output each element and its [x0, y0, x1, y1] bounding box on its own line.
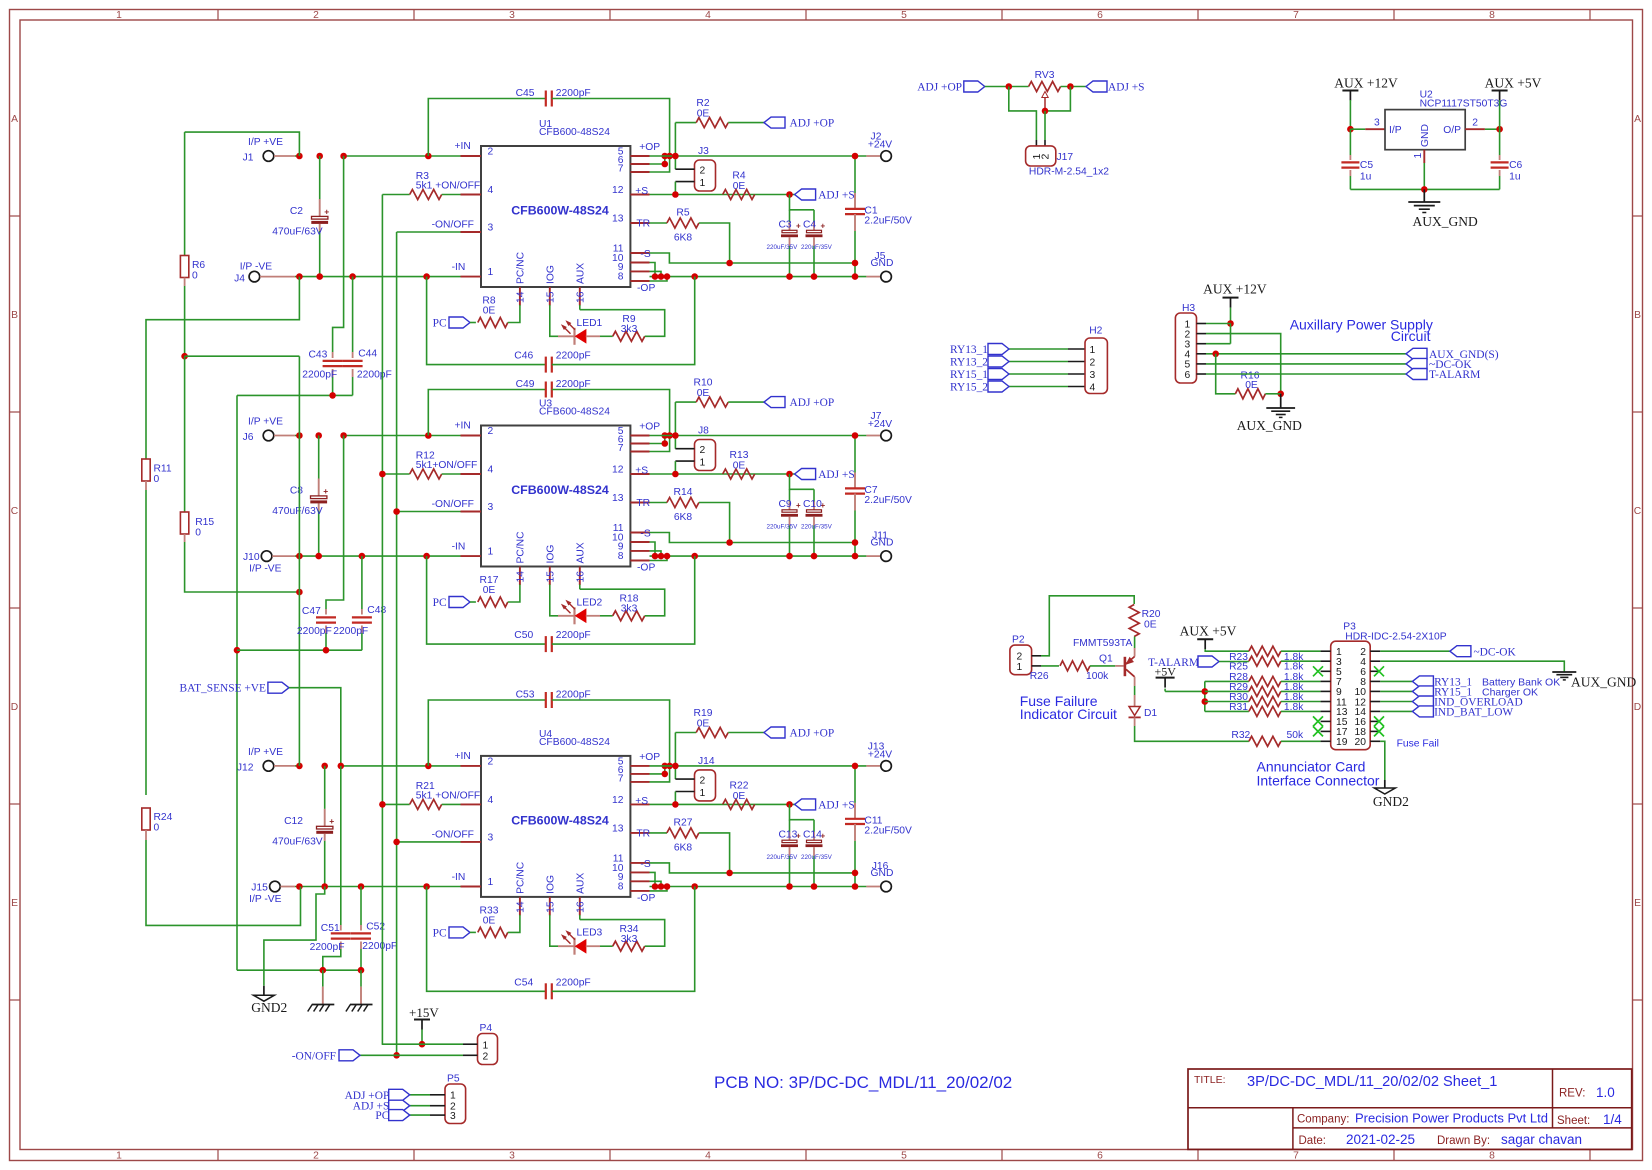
svg-text:I/P -VE: I/P -VE [249, 564, 282, 575]
svg-text:7: 7 [1293, 1151, 1299, 1162]
svg-text:E: E [1634, 898, 1641, 909]
svg-text:AUX_GND: AUX_GND [1237, 418, 1302, 433]
svg-text:I/P +VE: I/P +VE [248, 137, 283, 148]
svg-text:J1: J1 [243, 153, 254, 164]
svg-text:+24V: +24V [868, 419, 892, 430]
svg-text:4: 4 [488, 795, 494, 806]
svg-text:D: D [11, 702, 18, 713]
svg-text:GND2: GND2 [251, 1000, 287, 1015]
svg-text:AUX +5V: AUX +5V [1485, 76, 1542, 91]
svg-text:0E: 0E [1144, 620, 1157, 631]
svg-text:2.2uF/50V: 2.2uF/50V [864, 495, 912, 506]
svg-text:sagar chavan: sagar chavan [1501, 1132, 1582, 1147]
svg-text:CFB600-48S24: CFB600-48S24 [539, 407, 610, 418]
svg-text:ADJ +OP: ADJ +OP [790, 118, 835, 130]
svg-text:R27: R27 [674, 817, 693, 828]
svg-text:Fuse Fail: Fuse Fail [1397, 739, 1439, 750]
svg-text:ADJ +S: ADJ +S [818, 469, 855, 481]
svg-text:5k1 +ON/OFF: 5k1 +ON/OFF [416, 181, 480, 192]
svg-text:I/P: I/P [1389, 125, 1402, 136]
svg-text:Circuit: Circuit [1391, 328, 1431, 344]
svg-text:LED1: LED1 [577, 318, 603, 329]
svg-text:3k3: 3k3 [621, 934, 638, 945]
svg-text:-S: -S [640, 859, 650, 870]
svg-text:C6: C6 [1509, 160, 1522, 171]
svg-text:0E: 0E [697, 388, 710, 399]
svg-text:-ON/OFF: -ON/OFF [432, 829, 474, 840]
svg-text:Indicator Circuit: Indicator Circuit [1020, 706, 1117, 722]
svg-text:3: 3 [1090, 370, 1096, 381]
svg-text:220uF/35V: 220uF/35V [801, 524, 833, 531]
svg-text:3k3: 3k3 [621, 324, 638, 335]
svg-text:E: E [11, 898, 18, 909]
svg-text:GND: GND [871, 538, 894, 549]
svg-text:1: 1 [1090, 345, 1096, 356]
svg-text:O/P: O/P [1443, 125, 1461, 136]
svg-text:1: 1 [488, 267, 494, 278]
svg-text:4: 4 [705, 10, 711, 21]
svg-text:0E: 0E [483, 915, 496, 926]
svg-text:NCP1117ST50T3G: NCP1117ST50T3G [1420, 99, 1508, 110]
svg-text:CFB600-48S24: CFB600-48S24 [539, 737, 610, 748]
svg-text:C4: C4 [803, 220, 816, 231]
svg-text:CFB600W-48S24: CFB600W-48S24 [511, 483, 609, 497]
svg-text:C54: C54 [514, 977, 533, 988]
svg-text:AUX: AUX [575, 542, 586, 563]
svg-text:Sheet:: Sheet: [1557, 1115, 1590, 1127]
svg-text:3: 3 [509, 1151, 515, 1162]
svg-text:2200pF: 2200pF [556, 977, 591, 988]
svg-text:PC: PC [433, 597, 447, 609]
svg-text:H2: H2 [1089, 326, 1102, 337]
svg-text:16: 16 [575, 571, 586, 583]
svg-text:8: 8 [1489, 1151, 1495, 1162]
svg-text:I/P +VE: I/P +VE [248, 747, 283, 758]
svg-text:+OP: +OP [639, 142, 660, 153]
svg-text:I/P -VE: I/P -VE [240, 262, 273, 273]
svg-text:1: 1 [116, 10, 122, 21]
svg-text:1: 1 [483, 1040, 489, 1051]
svg-text:C10: C10 [803, 499, 822, 510]
svg-text:C44: C44 [358, 349, 377, 360]
svg-text:IOG: IOG [545, 545, 556, 564]
svg-text:4: 4 [705, 1151, 711, 1162]
svg-text:C13: C13 [779, 829, 798, 840]
svg-text:1: 1 [700, 788, 706, 799]
svg-text:Company:: Company: [1297, 1114, 1349, 1126]
svg-text:C: C [11, 506, 19, 517]
svg-text:R15: R15 [195, 517, 214, 528]
svg-text:3k3: 3k3 [621, 604, 638, 615]
svg-text:+: + [323, 486, 328, 496]
svg-text:1: 1 [450, 1091, 456, 1102]
svg-text:0: 0 [192, 271, 198, 282]
svg-text:PC/NC: PC/NC [515, 251, 526, 284]
svg-text:2: 2 [700, 166, 706, 177]
svg-text:2: 2 [313, 10, 319, 21]
svg-text:C12: C12 [284, 816, 303, 827]
svg-text:-ON/OFF: -ON/OFF [432, 220, 474, 231]
svg-text:Date:: Date: [1299, 1135, 1327, 1147]
svg-text:B: B [1634, 310, 1641, 321]
svg-text:2200pF: 2200pF [302, 369, 337, 380]
svg-text:H3: H3 [1182, 303, 1195, 314]
svg-text:GND: GND [1420, 124, 1431, 147]
svg-text:1: 1 [488, 877, 494, 888]
svg-text:LED3: LED3 [577, 928, 603, 939]
svg-text:C46: C46 [514, 351, 533, 362]
svg-text:16: 16 [575, 291, 586, 303]
svg-text:1: 1 [1413, 153, 1424, 159]
svg-text:CFB600-48S24: CFB600-48S24 [539, 127, 610, 138]
svg-text:BAT_SENSE +VE: BAT_SENSE +VE [180, 683, 267, 695]
svg-text:1: 1 [700, 458, 706, 469]
svg-text:0: 0 [154, 823, 160, 834]
svg-text:+OP: +OP [639, 422, 660, 433]
svg-text:8: 8 [618, 272, 624, 283]
svg-text:PC: PC [433, 927, 447, 939]
svg-text:Interface Connector: Interface Connector [1257, 773, 1380, 789]
svg-text:2200pF: 2200pF [357, 369, 392, 380]
svg-text:19: 19 [1336, 737, 1348, 748]
svg-text:C9: C9 [779, 499, 792, 510]
svg-text:+OP: +OP [639, 752, 660, 763]
svg-text:14: 14 [515, 571, 526, 583]
svg-text:RV3: RV3 [1035, 70, 1055, 81]
svg-text:6: 6 [1097, 1151, 1103, 1162]
svg-text:20: 20 [1355, 737, 1367, 748]
svg-text:D: D [1634, 702, 1641, 713]
svg-text:3: 3 [488, 502, 494, 513]
svg-text:C43: C43 [309, 350, 328, 361]
svg-text:Q1: Q1 [1099, 654, 1113, 665]
svg-text:6K8: 6K8 [674, 233, 693, 244]
svg-text:3: 3 [509, 10, 515, 21]
svg-text:C53: C53 [516, 690, 535, 701]
svg-text:C5: C5 [1360, 160, 1373, 171]
svg-text:3P/DC-DC_MDL/11_20/02/02 Sheet: 3P/DC-DC_MDL/11_20/02/02 Sheet_1 [1247, 1074, 1497, 1090]
svg-text:2200pF: 2200pF [310, 942, 345, 953]
svg-text:1.8k: 1.8k [1284, 702, 1304, 713]
svg-text:IOG: IOG [545, 265, 556, 284]
svg-text:C: C [1634, 506, 1642, 517]
svg-text:6K8: 6K8 [674, 512, 693, 523]
svg-text:1: 1 [700, 178, 706, 189]
svg-text:-S: -S [640, 249, 650, 260]
svg-text:Precision Power Products Pvt L: Precision Power Products Pvt Ltd [1355, 1111, 1548, 1126]
svg-text:14: 14 [515, 901, 526, 913]
svg-text:2200pF: 2200pF [556, 88, 591, 99]
svg-text:PCB NO: 3P/DC-DC_MDL/11_20/02/: PCB NO: 3P/DC-DC_MDL/11_20/02/02 [714, 1073, 1012, 1092]
svg-text:0: 0 [154, 474, 160, 485]
svg-text:+5V: +5V [1155, 665, 1177, 679]
svg-text:-ON/OFF: -ON/OFF [292, 1051, 336, 1063]
svg-text:J4: J4 [234, 274, 245, 285]
svg-text:1: 1 [116, 1151, 122, 1162]
svg-text:R4: R4 [732, 171, 745, 182]
svg-text:2: 2 [488, 426, 494, 437]
svg-text:-OP: -OP [637, 283, 655, 294]
svg-text:P5: P5 [447, 1074, 460, 1085]
svg-text:0E: 0E [483, 306, 496, 317]
svg-text:+S: +S [635, 796, 648, 807]
svg-text:R20: R20 [1142, 609, 1161, 620]
svg-text:C50: C50 [514, 630, 533, 641]
svg-text:2: 2 [313, 1151, 319, 1162]
svg-text:RY15_2: RY15_2 [950, 382, 988, 394]
svg-text:3: 3 [450, 1111, 456, 1122]
svg-text:2200pF: 2200pF [362, 941, 397, 952]
svg-text:-IN: -IN [452, 262, 466, 273]
svg-text:~DC-OK: ~DC-OK [1474, 647, 1517, 659]
svg-text:R6: R6 [192, 260, 205, 271]
svg-text:R24: R24 [154, 812, 173, 823]
svg-text:C47: C47 [302, 606, 321, 617]
svg-text:REV:: REV: [1559, 1088, 1585, 1100]
svg-text:C8: C8 [290, 486, 303, 497]
svg-text:R13: R13 [730, 450, 749, 461]
svg-text:8: 8 [1489, 10, 1495, 21]
svg-text:1/4: 1/4 [1603, 1112, 1622, 1127]
svg-text:1u: 1u [1360, 172, 1372, 183]
svg-text:CFB600W-48S24: CFB600W-48S24 [511, 204, 609, 218]
svg-text:Drawn By:: Drawn By: [1437, 1135, 1490, 1147]
svg-text:AUX_GND: AUX_GND [1571, 675, 1636, 690]
svg-text:-OP: -OP [637, 563, 655, 574]
svg-text:470uF/63V: 470uF/63V [272, 227, 323, 238]
svg-text:R25: R25 [1229, 662, 1248, 673]
svg-text:2200pF: 2200pF [556, 379, 591, 390]
svg-text:+: + [796, 501, 801, 510]
svg-text:J10: J10 [243, 552, 260, 563]
svg-text:2021-02-25: 2021-02-25 [1346, 1132, 1415, 1147]
svg-text:2: 2 [488, 756, 494, 767]
svg-text:15: 15 [545, 901, 556, 913]
svg-text:5: 5 [901, 1151, 907, 1162]
svg-text:AUX +12V: AUX +12V [1334, 76, 1398, 91]
svg-text:3: 3 [1374, 118, 1380, 129]
svg-text:IND_BAT_LOW: IND_BAT_LOW [1434, 706, 1513, 718]
svg-text:I/P -VE: I/P -VE [249, 894, 282, 905]
svg-text:+: + [324, 206, 329, 216]
svg-text:6: 6 [1097, 10, 1103, 21]
svg-text:220uF/35V: 220uF/35V [767, 244, 799, 251]
svg-text:R31: R31 [1229, 702, 1248, 713]
svg-text:+15V: +15V [409, 1005, 439, 1020]
svg-text:PC/NC: PC/NC [515, 531, 526, 564]
svg-text:4: 4 [488, 185, 494, 196]
svg-text:+: + [329, 816, 334, 826]
svg-text:C51: C51 [321, 923, 340, 934]
svg-text:15: 15 [545, 291, 556, 303]
svg-text:R19: R19 [694, 708, 713, 719]
svg-text:R11: R11 [154, 464, 172, 475]
svg-text:5k1+ON/OFF: 5k1+ON/OFF [416, 460, 478, 471]
svg-text:4: 4 [488, 465, 494, 476]
svg-text:13: 13 [612, 493, 624, 504]
svg-text:2200pF: 2200pF [333, 626, 368, 637]
svg-text:8: 8 [618, 551, 624, 562]
svg-text:AUX: AUX [575, 873, 586, 894]
svg-text:2200pF: 2200pF [556, 630, 591, 641]
svg-text:TR: TR [636, 498, 650, 509]
svg-text:3: 3 [488, 832, 494, 843]
svg-text:0: 0 [195, 528, 201, 539]
svg-text:J15: J15 [251, 883, 268, 894]
svg-text:0E: 0E [483, 585, 496, 596]
svg-text:R5: R5 [676, 208, 689, 219]
svg-text:R10: R10 [694, 378, 713, 389]
svg-text:2: 2 [1040, 154, 1052, 160]
svg-text:R26: R26 [1030, 671, 1049, 682]
svg-text:0E: 0E [733, 461, 746, 472]
svg-text:1.0: 1.0 [1596, 1085, 1615, 1100]
svg-text:50k: 50k [1287, 730, 1304, 741]
svg-text:0E: 0E [697, 109, 710, 120]
svg-text:P4: P4 [480, 1023, 493, 1034]
svg-text:0E: 0E [733, 791, 746, 802]
svg-text:+S: +S [635, 186, 648, 197]
svg-text:C49: C49 [516, 379, 535, 390]
svg-text:J3: J3 [698, 146, 709, 157]
svg-text:1: 1 [1017, 662, 1023, 673]
svg-text:2200pF: 2200pF [297, 626, 332, 637]
svg-text:13: 13 [612, 214, 624, 225]
svg-text:0E: 0E [1245, 380, 1258, 391]
svg-text:TR: TR [636, 219, 650, 230]
svg-text:ADJ +S: ADJ +S [818, 799, 855, 811]
svg-text:GND: GND [871, 258, 894, 269]
svg-text:6K8: 6K8 [674, 842, 693, 853]
svg-text:7: 7 [618, 164, 624, 175]
svg-text:+IN: +IN [455, 751, 471, 762]
svg-text:2.2uF/50V: 2.2uF/50V [864, 216, 912, 227]
svg-text:12: 12 [612, 185, 624, 196]
svg-text:LED2: LED2 [577, 597, 603, 608]
svg-text:ADJ +OP: ADJ +OP [790, 728, 835, 740]
svg-text:AUX +5V: AUX +5V [1180, 624, 1237, 639]
svg-text:4: 4 [1090, 382, 1096, 393]
svg-text:A: A [11, 114, 18, 125]
svg-text:+24V: +24V [868, 140, 892, 151]
svg-text:+: + [821, 222, 826, 231]
svg-text:220uF/35V: 220uF/35V [801, 854, 833, 861]
svg-text:-S: -S [640, 529, 650, 540]
svg-text:ADJ +OP: ADJ +OP [790, 397, 835, 409]
svg-text:-IN: -IN [452, 542, 466, 553]
svg-text:ADJ +S: ADJ +S [1108, 82, 1145, 94]
svg-text:16: 16 [575, 901, 586, 913]
svg-text:5: 5 [901, 10, 907, 21]
svg-text:0E: 0E [697, 718, 710, 729]
svg-text:R2: R2 [696, 98, 709, 109]
svg-text:8: 8 [618, 881, 624, 892]
svg-text:AUX +12V: AUX +12V [1203, 282, 1267, 297]
svg-text:R22: R22 [730, 780, 749, 791]
svg-text:J17: J17 [1057, 152, 1074, 163]
svg-text:12: 12 [612, 465, 624, 476]
svg-text:2: 2 [700, 445, 706, 456]
svg-text:1.8k: 1.8k [1284, 662, 1304, 673]
svg-text:J14: J14 [698, 756, 715, 767]
svg-text:C3: C3 [779, 220, 792, 231]
svg-text:100k: 100k [1086, 671, 1109, 682]
svg-text:12: 12 [612, 795, 624, 806]
svg-text:+: + [796, 222, 801, 231]
svg-text:2200pF: 2200pF [556, 351, 591, 362]
svg-text:3: 3 [488, 223, 494, 234]
svg-text:PC: PC [375, 1110, 389, 1122]
svg-text:220uF/35V: 220uF/35V [801, 244, 833, 251]
svg-text:B: B [11, 310, 18, 321]
svg-text:PC/NC: PC/NC [515, 861, 526, 894]
svg-text:FMMT593TA: FMMT593TA [1073, 638, 1132, 649]
svg-text:A: A [1634, 114, 1641, 125]
svg-text:ADJ +S: ADJ +S [818, 190, 855, 202]
svg-text:J12: J12 [237, 762, 254, 773]
svg-text:2: 2 [483, 1051, 489, 1062]
svg-text:7: 7 [1293, 10, 1299, 21]
svg-text:I/P +VE: I/P +VE [248, 417, 283, 428]
svg-text:14: 14 [515, 291, 526, 303]
svg-text:IOG: IOG [545, 875, 556, 894]
svg-text:-IN: -IN [452, 872, 466, 883]
svg-text:AUX_GND: AUX_GND [1413, 214, 1478, 229]
svg-text:PC: PC [433, 318, 447, 330]
svg-text:TR: TR [636, 828, 650, 839]
svg-text:GND: GND [871, 868, 894, 879]
svg-text:+24V: +24V [868, 749, 892, 760]
svg-text:RY15_1: RY15_1 [950, 369, 988, 381]
svg-text:+S: +S [635, 466, 648, 477]
svg-text:470uF/63V: 470uF/63V [272, 837, 323, 848]
svg-text:AUX: AUX [575, 263, 586, 284]
svg-text:+IN: +IN [455, 421, 471, 432]
svg-text:-OP: -OP [637, 893, 655, 904]
svg-text:2: 2 [488, 147, 494, 158]
svg-text:RY13_2: RY13_2 [950, 357, 988, 369]
svg-text:D1: D1 [1144, 708, 1157, 719]
svg-text:220uF/35V: 220uF/35V [767, 854, 799, 861]
svg-text:C48: C48 [367, 605, 386, 616]
svg-text:T-ALARM: T-ALARM [1429, 369, 1480, 381]
svg-text:HDR-IDC-2.54-2X10P: HDR-IDC-2.54-2X10P [1345, 632, 1446, 643]
svg-text:1u: 1u [1509, 172, 1521, 183]
svg-text:7: 7 [618, 773, 624, 784]
svg-text:2200pF: 2200pF [556, 690, 591, 701]
svg-text:HDR-M-2.54_1x2: HDR-M-2.54_1x2 [1029, 167, 1109, 178]
svg-text:2.2uF/50V: 2.2uF/50V [864, 825, 912, 836]
svg-text:C2: C2 [290, 206, 303, 217]
svg-text:0E: 0E [733, 181, 746, 192]
svg-text:CFB600W-48S24: CFB600W-48S24 [511, 813, 609, 827]
svg-text:C45: C45 [516, 88, 535, 99]
svg-text:-ON/OFF: -ON/OFF [432, 499, 474, 510]
svg-text:P2: P2 [1012, 635, 1025, 646]
svg-text:+IN: +IN [455, 141, 471, 152]
svg-text:13: 13 [612, 823, 624, 834]
svg-text:GND2: GND2 [1373, 794, 1409, 809]
svg-text:TITLE:: TITLE: [1194, 1074, 1226, 1086]
svg-text:1: 1 [488, 547, 494, 558]
svg-text:2: 2 [1090, 357, 1096, 368]
svg-text:C14: C14 [803, 829, 822, 840]
svg-text:5k1 +ON/OFF: 5k1 +ON/OFF [416, 790, 480, 801]
svg-text:15: 15 [545, 571, 556, 583]
svg-text:ADJ +OP: ADJ +OP [917, 82, 962, 94]
svg-text:220uF/35V: 220uF/35V [767, 524, 799, 531]
svg-text:J6: J6 [243, 432, 254, 443]
